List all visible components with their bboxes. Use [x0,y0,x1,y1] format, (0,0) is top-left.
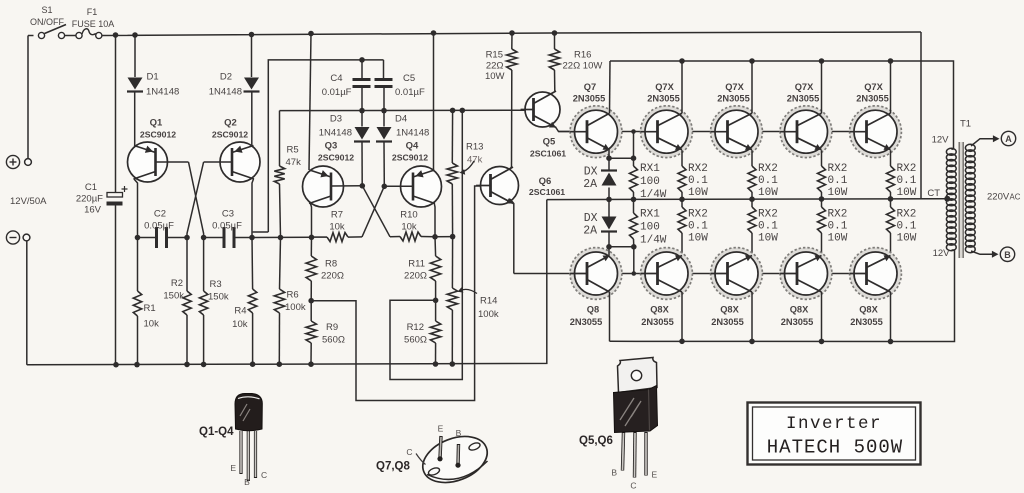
svg-text:2SC9012: 2SC9012 [140,130,176,140]
label F1 [87,7,98,17]
label RX2 bottom 1 [688,209,708,221]
svg-text:12V: 12V [933,248,951,259]
label RX2 top 2 [758,163,778,175]
node C2 right [184,235,190,241]
svg-text:Q7X: Q7X [655,82,674,92]
node top rail R15 [509,30,515,36]
node rail R6 [277,361,283,367]
svg-text:Q4: Q4 [406,141,419,152]
label R10 [400,210,417,221]
svg-text:Q7X: Q7X [795,82,814,92]
terminal + connector [25,159,32,166]
svg-text:Q8X: Q8X [650,305,669,315]
label RX2 top 2 watt [758,187,778,199]
wire Q8X2 collector drop [681,292,683,341]
label TO220 C [630,481,636,491]
svg-text:47k: 47k [467,155,483,166]
svg-text:0.1: 0.1 [828,175,848,187]
label DX top [584,166,598,179]
svg-text:E: E [438,424,444,434]
node rail3 Q8X3 [749,339,755,345]
label R11 value [404,271,427,282]
label C2 [154,209,166,220]
output A [1001,131,1015,145]
node C4 D3 [359,108,365,114]
output B arrow [992,251,999,258]
svg-text:E: E [230,463,236,473]
label CT [927,188,940,199]
label 220VAC [987,192,1021,203]
svg-text:R2: R2 [171,278,183,289]
resistor R1 [133,238,141,365]
wire Q6 emitter down [510,199,514,274]
label R2 [171,278,183,289]
svg-text:R11: R11 [408,259,425,270]
label Q7X 5 [864,82,883,92]
wire CT rail [547,198,947,201]
label D1 [147,72,159,83]
label R6 [287,290,299,301]
svg-text:C3: C3 [222,209,234,220]
svg-text:220V: 220V [987,192,1010,203]
node rail2 Q7X3 [749,58,755,64]
svg-text:10W: 10W [828,233,848,245]
wire Q4 emitter riser [433,33,435,170]
resistor R2 [183,238,191,365]
wire primary top lead [952,148,954,150]
svg-text:RX2: RX2 [897,209,917,221]
svg-text:RX2: RX2 [688,163,708,175]
wire top rail [102,32,921,36]
label Q8 1 type [570,317,603,327]
wire Q8 collector rail [610,249,955,342]
label T1 [960,119,971,130]
label FUSE 10A [72,19,115,29]
capacitor C1 [107,186,128,204]
label R8 value [321,271,344,282]
wire C1 bottom lead [115,206,117,365]
label R7 [331,210,343,221]
svg-text:R8: R8 [325,259,337,270]
node R13 bottom [450,234,456,240]
capacitor C2 [138,227,188,248]
label R5 value [286,157,302,168]
transistor Q5 [521,91,560,128]
wire secondary bottom lead [971,251,994,254]
label C5 value [395,87,425,98]
resistor R10 [390,232,435,241]
svg-text:0.05µF: 0.05µF [212,221,242,232]
svg-text:RX2: RX2 [828,209,848,221]
node ct rail RX1 [631,197,637,203]
svg-text:ON/OFF: ON/OFF [30,17,64,27]
svg-text:RX2: RX2 [897,163,917,175]
wire Q7X4 collector riser [821,61,823,113]
diode D1 [127,78,143,92]
svg-text:D4: D4 [395,114,407,125]
label TO220 B [611,468,617,478]
label RX2 top 3 watt [828,187,848,199]
wire bottom rail left [27,200,547,365]
svg-text:Q6: Q6 [539,176,552,187]
node rail C1 [113,362,119,368]
label R13 value [467,155,483,166]
title box [748,403,921,465]
svg-text:0.05µF: 0.05µF [144,221,174,232]
svg-text:Q7X: Q7X [864,82,883,92]
svg-text:C5: C5 [403,73,415,84]
label RX2 top 1 watt [688,187,708,199]
wire Q3 base cross diagonal [362,186,390,237]
wire RX1 bottom to bus [633,247,635,274]
label Q1-Q4 [199,426,234,438]
svg-text:0.1: 0.1 [688,221,708,233]
svg-text:R5: R5 [287,145,299,156]
svg-text:S1: S1 [41,5,52,15]
svg-text:150k: 150k [208,292,229,303]
svg-text:Q5: Q5 [543,137,556,148]
node ct rail RX2d [888,196,894,202]
label Q7X 3 type [717,94,750,104]
label RX2 bottom 3 value [828,221,848,233]
transistor Q4 [401,166,442,207]
svg-text:2N3055: 2N3055 [781,317,814,327]
label Q5,Q6 [579,435,613,447]
svg-text:E: E [652,470,658,480]
svg-text:10W: 10W [897,233,917,245]
svg-text:1N4148: 1N4148 [146,87,179,98]
wire Q8X4 collector drop [821,292,823,341]
label Q8X 4 type [781,317,814,327]
svg-text:R13: R13 [466,142,483,153]
svg-text:C: C [630,481,636,491]
wire Q4 base [384,185,413,187]
label R14 [480,296,497,307]
svg-text:HATECH 500W: HATECH 500W [767,437,903,459]
node R7 left [309,235,315,241]
svg-text:R9: R9 [326,322,338,333]
fuse F1 [76,29,102,39]
label RX2 top 3 value [828,175,848,187]
label R12 value [404,335,427,346]
svg-text:B: B [456,428,462,438]
node RX1 bus [631,129,636,134]
svg-text:D2: D2 [220,72,232,83]
wire Q7 base bus [559,131,867,133]
svg-text:Q8X: Q8X [790,305,809,315]
svg-text:Q8: Q8 [587,305,599,315]
resistor RX2 top 1 [678,150,686,199]
label D4 [395,114,407,125]
label Q4 type [392,153,428,163]
wire CT feed from top rail [921,32,947,199]
svg-text:10W: 10W [758,233,778,245]
label Q2 [224,118,237,129]
svg-text:2A: 2A [583,178,597,191]
label C4 [330,73,342,84]
transistor Q7X2 top row [641,106,693,158]
svg-text:100: 100 [640,222,660,234]
svg-text:CT: CT [927,188,940,199]
svg-text:0.1: 0.1 [688,175,708,187]
svg-text:FUSE 10A: FUSE 10A [72,19,115,29]
wire Q5 emitter to bus [556,127,576,132]
wire C1 top lead [115,35,117,193]
title text Inverter [786,414,882,434]
node rail R3 [201,362,207,368]
node RX1 bus bottom [632,271,637,276]
node R10 right [432,234,438,240]
svg-text:R6: R6 [287,290,299,301]
label R12 [407,322,424,333]
svg-text:10W: 10W [688,233,708,245]
label R8 [325,259,337,270]
label Q8X 2 type [641,317,674,327]
label R3 [210,279,222,290]
label RX2 bottom 1 watt [688,233,708,245]
svg-text:2N3055: 2N3055 [641,317,674,327]
svg-text:10W: 10W [485,71,505,82]
svg-text:B: B [244,477,250,487]
label R16 value [563,61,603,72]
wire secondary top lead [971,139,995,146]
label R10 value [401,222,417,233]
resistor RX2 top 4 [887,150,895,199]
svg-text:A: A [1005,134,1012,144]
label RX1 top watt [640,189,667,201]
resistor RX2 top 2 [748,150,756,199]
label D3 value [319,128,352,139]
svg-text:F1: F1 [87,7,98,17]
svg-text:0.1: 0.1 [758,175,778,187]
svg-text:R4: R4 [234,306,246,317]
label R3 value [208,292,229,303]
wire Q8X3 collector drop [751,292,753,341]
svg-text:10k: 10k [329,222,345,233]
label Q7X 2 [655,82,674,92]
resistor R8 [306,237,316,300]
label C1 voltage [84,205,102,216]
svg-text:RX2: RX2 [758,209,778,221]
label Q1 type [140,130,176,140]
label C3 [222,209,234,220]
label Q7,Q8 [376,461,410,473]
wire Q3 emitter riser [309,34,311,171]
label R2 value [163,291,184,302]
label RX2 top 2 value [758,175,778,187]
label Q8X 2 [650,305,669,315]
wire Q2 collector down [252,179,254,238]
capacitor C5 [375,60,393,111]
transformer T1 core [959,142,963,258]
svg-text:R7: R7 [331,210,343,221]
label RX2 top 1 value [688,175,708,187]
svg-text:220µF: 220µF [76,194,103,205]
node RX1 top [631,155,637,161]
svg-text:0.1: 0.1 [758,221,778,233]
node rail2 Q7X2 [679,58,685,64]
label R15 value [486,61,504,72]
label RX2 bottom 1 value [688,221,708,233]
transistor Q7X3 top row [711,106,763,158]
wire Q2 collector riser [268,60,383,232]
svg-text:T1: T1 [960,119,971,130]
label 12V bottom [933,248,951,259]
transistor Q2 [220,142,260,182]
node rail3 Q8X4 [819,339,825,345]
label TO3 E [438,424,444,434]
label 12V top [932,135,950,146]
wire top rail left segment [28,35,34,37]
svg-text:Q7: Q7 [584,82,596,92]
label C5 [403,73,415,84]
transistor Q7X5 top row [850,106,902,158]
svg-text:0.01µF: 0.01µF [395,87,425,98]
label TO92 E [230,463,236,473]
wire Q2 base diagonal [187,162,204,238]
label RX2 bottom 4 watt [897,233,917,245]
wire Q4 base cross diagonal [362,186,384,237]
label Q8X 5 type [850,317,883,327]
svg-text:100k: 100k [285,302,306,313]
node C5 D4 [381,108,387,114]
label Q5 type [530,149,566,159]
svg-text:2N3055: 2N3055 [787,94,820,104]
wire Q7 emitter drop [608,149,610,158]
transistor Q3 [303,166,344,207]
wire loop A [311,186,480,401]
svg-text:220Ω: 220Ω [321,271,344,282]
label Q2 type [212,130,248,140]
node Q7 emitter [606,155,612,161]
svg-text:560Ω: 560Ω [404,335,427,346]
wire D1 to Q1 emitter [134,92,136,148]
diode DX top [601,160,617,199]
node R8 R9 junction [308,298,314,304]
svg-text:RX2: RX2 [758,163,778,175]
output B [1000,247,1014,261]
transistor Q8X2 bottom row [641,248,693,300]
node C4 top [359,57,365,63]
svg-text:Q1: Q1 [150,118,163,129]
resistor RX2 bottom 1 [678,199,686,255]
resistor R13 [447,110,457,236]
svg-text:1N4148: 1N4148 [319,128,352,139]
label R15 watt [485,71,505,82]
transformer T1 secondary [965,144,975,252]
label C4 value [322,87,352,98]
wire row C3 to R5 column [252,236,312,238]
label TO3 B [456,428,462,438]
resistor R7 [312,233,363,242]
label Q7X 5 type [856,94,889,104]
transistor Q8X5 bottom row [850,248,902,300]
label R11 [408,259,425,270]
node CT [944,196,950,202]
label Q5 [543,137,556,148]
resistor RX2 bottom 3 [818,199,826,255]
label D4 value [396,128,429,139]
package TO-92 Q1-Q4 [235,394,262,482]
svg-text:RX2: RX2 [688,209,708,221]
label 12V/50A [10,196,47,207]
svg-text:Q2: Q2 [224,118,237,129]
wire Q3 base [332,185,363,187]
node DX bottom [606,244,612,250]
resistor R6 [274,238,284,365]
svg-text:R14: R14 [480,296,497,307]
svg-text:2SC1061: 2SC1061 [529,187,565,197]
wire Q2 base to cross [204,161,232,163]
svg-text:C2: C2 [154,209,166,220]
node rail R12 [433,361,439,367]
label R9 value [322,335,345,346]
label R4 [234,306,246,317]
label Q7 1 type [573,94,606,104]
svg-text:10W: 10W [897,187,917,199]
diode D2 [244,78,260,92]
capacitor C4 [353,60,371,111]
transistor Q6 [476,167,518,205]
wire bias line [280,109,535,111]
label RX1 top [640,163,660,175]
svg-text:10k: 10k [232,319,248,330]
wire emitter link bottom [609,246,634,248]
label D2 [220,72,232,83]
label Q8X 3 [720,305,739,315]
label RX2 bottom 4 value [897,221,917,233]
label TO92 C [261,470,267,480]
switch S1 [38,25,66,39]
node R11 R12 junction [433,298,439,304]
wire D2 top lead [251,35,253,78]
svg-text:R12: R12 [407,322,424,333]
svg-text:220Ω: 220Ω [404,271,427,282]
label ON/OFF [30,17,64,27]
svg-text:RX2: RX2 [828,163,848,175]
svg-text:Inverter: Inverter [786,414,882,434]
svg-text:R1: R1 [144,303,156,314]
diode DX bottom [601,199,617,246]
svg-text:2SC9012: 2SC9012 [212,130,248,140]
resistor RX1 top [630,158,638,199]
wire R10 row to R13 [435,236,453,238]
label R5 [287,145,299,156]
svg-text:10W: 10W [828,187,848,199]
label RX1 bottom value [640,222,660,234]
label TO220 E [652,470,658,480]
node top rail Q4 emitter [431,30,437,36]
label RX1 bottom watt [640,235,667,247]
svg-text:C1: C1 [85,182,97,193]
resistor R11 [430,237,440,300]
pot R14 wiper arrow [458,287,478,293]
label R14 value [478,309,499,320]
diode D4 [376,111,392,187]
svg-text:D3: D3 [330,114,342,125]
resistor R12 [430,300,440,364]
label Q8 1 [587,305,599,315]
resistor R5 [274,111,284,238]
svg-text:DX: DX [584,166,598,179]
transistor Q8X4 bottom row [780,248,832,300]
wire Q7X2 collector riser [681,61,683,113]
label RX2 top 3 [828,163,848,175]
node rail R4 [250,361,256,367]
svg-text:1N4148: 1N4148 [396,128,429,139]
resistor RX2 top 3 [818,150,826,199]
svg-text:100k: 100k [478,309,499,320]
